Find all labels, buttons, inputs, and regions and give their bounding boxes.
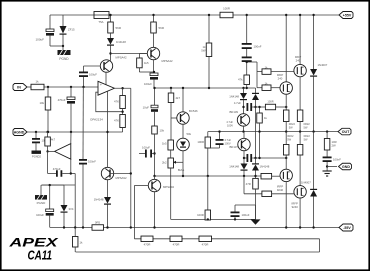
svg-text:10uF: 10uF: [143, 106, 150, 110]
svg-text:470uF: 470uF: [58, 98, 66, 102]
svg-text:50k: 50k: [187, 132, 192, 136]
svg-text:2W: 2W: [332, 144, 337, 148]
svg-text:1k5: 1k5: [162, 142, 167, 146]
svg-text:100uF: 100uF: [242, 213, 250, 217]
svg-text:100V: 100V: [227, 124, 233, 128]
svg-text:100nF: 100nF: [254, 45, 262, 49]
svg-text:4k7: 4k7: [176, 96, 181, 100]
svg-text:100R: 100R: [223, 7, 230, 11]
svg-text:1N4007: 1N4007: [318, 63, 328, 67]
svg-text:47K: 47K: [114, 119, 119, 123]
svg-text:IN: IN: [17, 85, 21, 89]
svg-text:0R22: 0R22: [304, 134, 311, 138]
svg-text:BIAS: BIAS: [178, 168, 185, 172]
svg-text:100nF: 100nF: [333, 158, 341, 162]
svg-text:OUT: OUT: [342, 130, 350, 134]
svg-text:56R: 56R: [159, 26, 165, 30]
svg-text:10k: 10k: [160, 129, 165, 133]
svg-text:ZF15: ZF15: [68, 28, 75, 32]
svg-text:0R5: 0R5: [95, 221, 101, 225]
svg-text:100uF: 100uF: [36, 213, 44, 217]
svg-text:100R: 100R: [197, 140, 204, 144]
svg-text:470R: 470R: [144, 243, 151, 247]
svg-text:BD139: BD139: [229, 110, 238, 114]
svg-text:100uF: 100uF: [35, 38, 44, 42]
svg-text:MPSA92: MPSA92: [116, 176, 127, 180]
svg-text:PGND: PGND: [37, 201, 47, 205]
svg-text:47K: 47K: [114, 100, 119, 104]
svg-text:5W: 5W: [201, 49, 206, 53]
svg-text:1N4007: 1N4007: [301, 180, 311, 184]
svg-text:9240: 9240: [292, 205, 299, 209]
svg-text:MPSA42: MPSA42: [116, 56, 127, 60]
svg-text:0R22: 0R22: [304, 122, 311, 126]
svg-text:100R: 100R: [197, 213, 204, 217]
svg-text:470R: 470R: [173, 243, 180, 247]
svg-text:1N4148: 1N4148: [116, 40, 126, 44]
svg-text:GND: GND: [342, 165, 350, 169]
svg-text:5W: 5W: [289, 126, 293, 130]
svg-text:+: +: [100, 83, 102, 87]
svg-text:1N4148: 1N4148: [260, 165, 270, 169]
svg-text:PGND2: PGND2: [32, 155, 41, 159]
svg-text:5W: 5W: [304, 126, 308, 130]
svg-text:240: 240: [278, 77, 283, 81]
svg-text:AGND: AGND: [14, 130, 25, 134]
svg-text:1N4148: 1N4148: [229, 165, 239, 169]
svg-text:OPA2134: OPA2134: [90, 118, 103, 122]
svg-text:4.7uF: 4.7uF: [226, 120, 233, 124]
svg-text:4k7: 4k7: [51, 138, 56, 142]
svg-text:PGND: PGND: [59, 57, 69, 61]
svg-text:100uF: 100uF: [89, 73, 97, 77]
svg-text:T5A: T5A: [98, 20, 103, 24]
svg-text:100nF: 100nF: [88, 160, 96, 164]
svg-text:0R22: 0R22: [287, 134, 294, 138]
svg-text:1k5: 1k5: [144, 61, 149, 65]
svg-text:1N4148: 1N4148: [229, 95, 239, 99]
svg-text:100R: 100R: [267, 100, 273, 104]
svg-text:3V4: 3V4: [69, 207, 74, 211]
svg-text:5W: 5W: [304, 138, 308, 142]
svg-text:4.7uF: 4.7uF: [225, 138, 232, 142]
svg-text:MPSA42: MPSA42: [162, 59, 173, 63]
svg-text:470R: 470R: [202, 243, 209, 247]
svg-text:0R22: 0R22: [289, 122, 296, 126]
svg-text:47k: 47k: [238, 78, 243, 82]
svg-text:5W: 5W: [287, 138, 291, 142]
svg-text:MPSA92: MPSA92: [163, 185, 174, 189]
svg-text:56R: 56R: [116, 26, 122, 30]
svg-text:-55V: -55V: [343, 226, 351, 230]
svg-text:240: 240: [296, 59, 301, 63]
svg-text:100uF: 100uF: [142, 146, 150, 150]
svg-text:4.7uF: 4.7uF: [234, 101, 241, 105]
svg-text:470uF: 470uF: [53, 167, 61, 171]
svg-text:10k: 10k: [39, 101, 44, 105]
svg-text:100V: 100V: [225, 142, 231, 146]
svg-text:BC546: BC546: [189, 109, 198, 113]
svg-text:100uF: 100uF: [144, 82, 152, 86]
svg-text:APEX: APEX: [8, 236, 59, 250]
svg-text:47R: 47R: [246, 182, 251, 186]
svg-text:1N4148: 1N4148: [94, 198, 104, 202]
svg-text:CA11: CA11: [28, 249, 53, 263]
svg-text:9240: 9240: [277, 188, 284, 192]
svg-text:BD137: BD137: [229, 145, 238, 149]
svg-text:+55V: +55V: [343, 13, 352, 17]
svg-text:2k2: 2k2: [162, 161, 167, 165]
